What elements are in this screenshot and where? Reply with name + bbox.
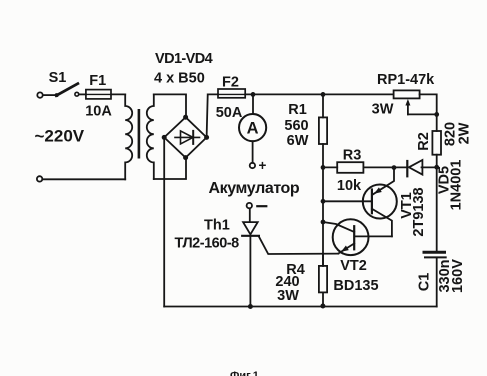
transformer TV1 primary [125,94,132,179]
transistor VT1 [363,168,397,237]
svg-text:A: A [247,120,259,138]
svg-text:2W: 2W [457,122,473,144]
svg-text:~220V: ~220V [35,127,85,146]
wire rail to R4 [322,254,324,266]
svg-text:F1: F1 [89,73,106,89]
wire bridge - down to bottom rail [163,137,165,306]
terminal bottom-left [37,176,42,181]
wire [79,93,86,95]
wire [436,114,438,131]
wire R4 to bottom rail [322,292,324,306]
svg-text:50A: 50A [216,105,243,121]
node junction [248,304,253,309]
svg-text:3W: 3W [277,288,299,304]
svg-text:10A: 10A [85,104,112,120]
wire rail mid [322,144,324,266]
svg-text:6W: 6W [287,133,309,149]
wire R3 to VD5 [363,166,406,168]
node junction [321,165,326,170]
wire rail R1 [322,94,324,117]
fuse F2 [218,89,245,98]
wire rail to C1 [436,167,438,251]
terminal - [247,203,252,208]
wire base VT1 [323,200,371,202]
wire [43,178,126,180]
svg-text:R2: R2 [416,132,432,151]
wire [111,93,125,95]
node junction [392,165,397,170]
wire to ammeter [252,94,254,114]
wire VD5 to rail [422,166,437,168]
node junction [251,92,256,97]
wire secondary bottom to bridge [154,157,186,179]
wire [436,155,438,168]
svg-text:1N4001: 1N4001 [448,160,464,211]
wire to R3 [323,166,337,168]
node junction [321,199,326,204]
resistor R1 [319,117,327,144]
svg-text:160V: 160V [450,259,466,293]
thyristor Th1 [242,222,259,236]
svg-text:560: 560 [284,118,308,134]
potentiometer RP1 [394,90,440,116]
ammeter PA1 [239,114,266,141]
svg-text:R3: R3 [343,148,362,164]
transformer secondary [147,94,154,179]
wire top rail [245,93,393,95]
node junction [321,220,326,225]
wire bridge + to F2 [207,94,218,137]
svg-text:+: + [259,158,267,173]
switch S1 [55,84,79,98]
resistor R2 [432,131,441,155]
capacitor C1 [424,252,446,257]
terminal + [250,163,255,168]
resistor R4 [319,266,327,293]
wire [249,208,251,221]
svg-text:R1: R1 [288,102,307,118]
svg-text:BD135: BD135 [333,278,378,294]
svg-text:Th1: Th1 [204,217,230,233]
svg-text:4 x B50: 4 x B50 [154,70,205,86]
svg-text:VD1-VD4: VD1-VD4 [155,51,213,67]
node junction [320,304,325,309]
wire thyristor cathode down [249,236,251,307]
wire [43,94,55,96]
bridge rectifier VD1-VD4 [162,115,209,160]
wire secondary top to bridge [154,94,186,117]
transformer core [138,109,141,159]
svg-text:C1: C1 [417,273,433,292]
wire VT1 collector to VT2 base [355,235,392,237]
svg-text:VT2: VT2 [340,258,367,274]
svg-text:S1: S1 [49,70,67,86]
resistor R3 [337,162,363,173]
svg-text:2T9138: 2T9138 [411,187,427,236]
svg-text:10k: 10k [337,178,362,194]
terminal top-left [37,92,42,97]
svg-text:RP1-47k: RP1-47k [377,72,435,88]
fuse F1 [86,90,111,99]
svg-text:3W: 3W [372,102,394,118]
svg-text:ТЛ2-160-8: ТЛ2-160-8 [175,235,240,251]
diode VD5 [407,160,422,176]
node junction [434,165,439,170]
transistor VT2 [323,219,369,255]
node junction [321,92,326,97]
svg-text:Акумулатор: Акумулатор [209,180,300,197]
svg-text:F2: F2 [222,74,239,90]
wire C1 to bottom rail [436,257,438,306]
svg-text:Фиг.1: Фиг.1 [230,370,259,376]
wire gate [259,237,338,254]
wire bottom rail [164,306,437,308]
label - [257,205,266,207]
wire [252,141,254,163]
